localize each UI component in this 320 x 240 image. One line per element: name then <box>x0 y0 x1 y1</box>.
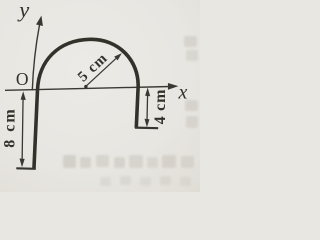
page background <box>0 0 200 192</box>
extension line at bottom of 4cm leg <box>135 126 158 129</box>
radius arrow 5 cm <box>87 53 122 85</box>
wire: 8cm left leg + 5cm semicircle + 4cm right leg <box>34 38 140 168</box>
svg-text:y: y <box>17 0 29 22</box>
dimension arrow 4 cm <box>145 88 151 128</box>
svg-text:x: x <box>178 82 188 104</box>
svg-text:4 cm: 4 cm <box>152 89 169 125</box>
y-axis <box>32 17 42 91</box>
extension line at bottom of 8cm leg <box>16 167 36 170</box>
svg-text:O: O <box>16 69 29 89</box>
dimension arrow 8 cm <box>20 91 26 167</box>
svg-text:8 cm: 8 cm <box>2 107 19 147</box>
x-axis <box>5 84 177 91</box>
center dot of semicircle <box>84 85 87 88</box>
bleed-through text blobs (reverse page) <box>63 36 198 186</box>
